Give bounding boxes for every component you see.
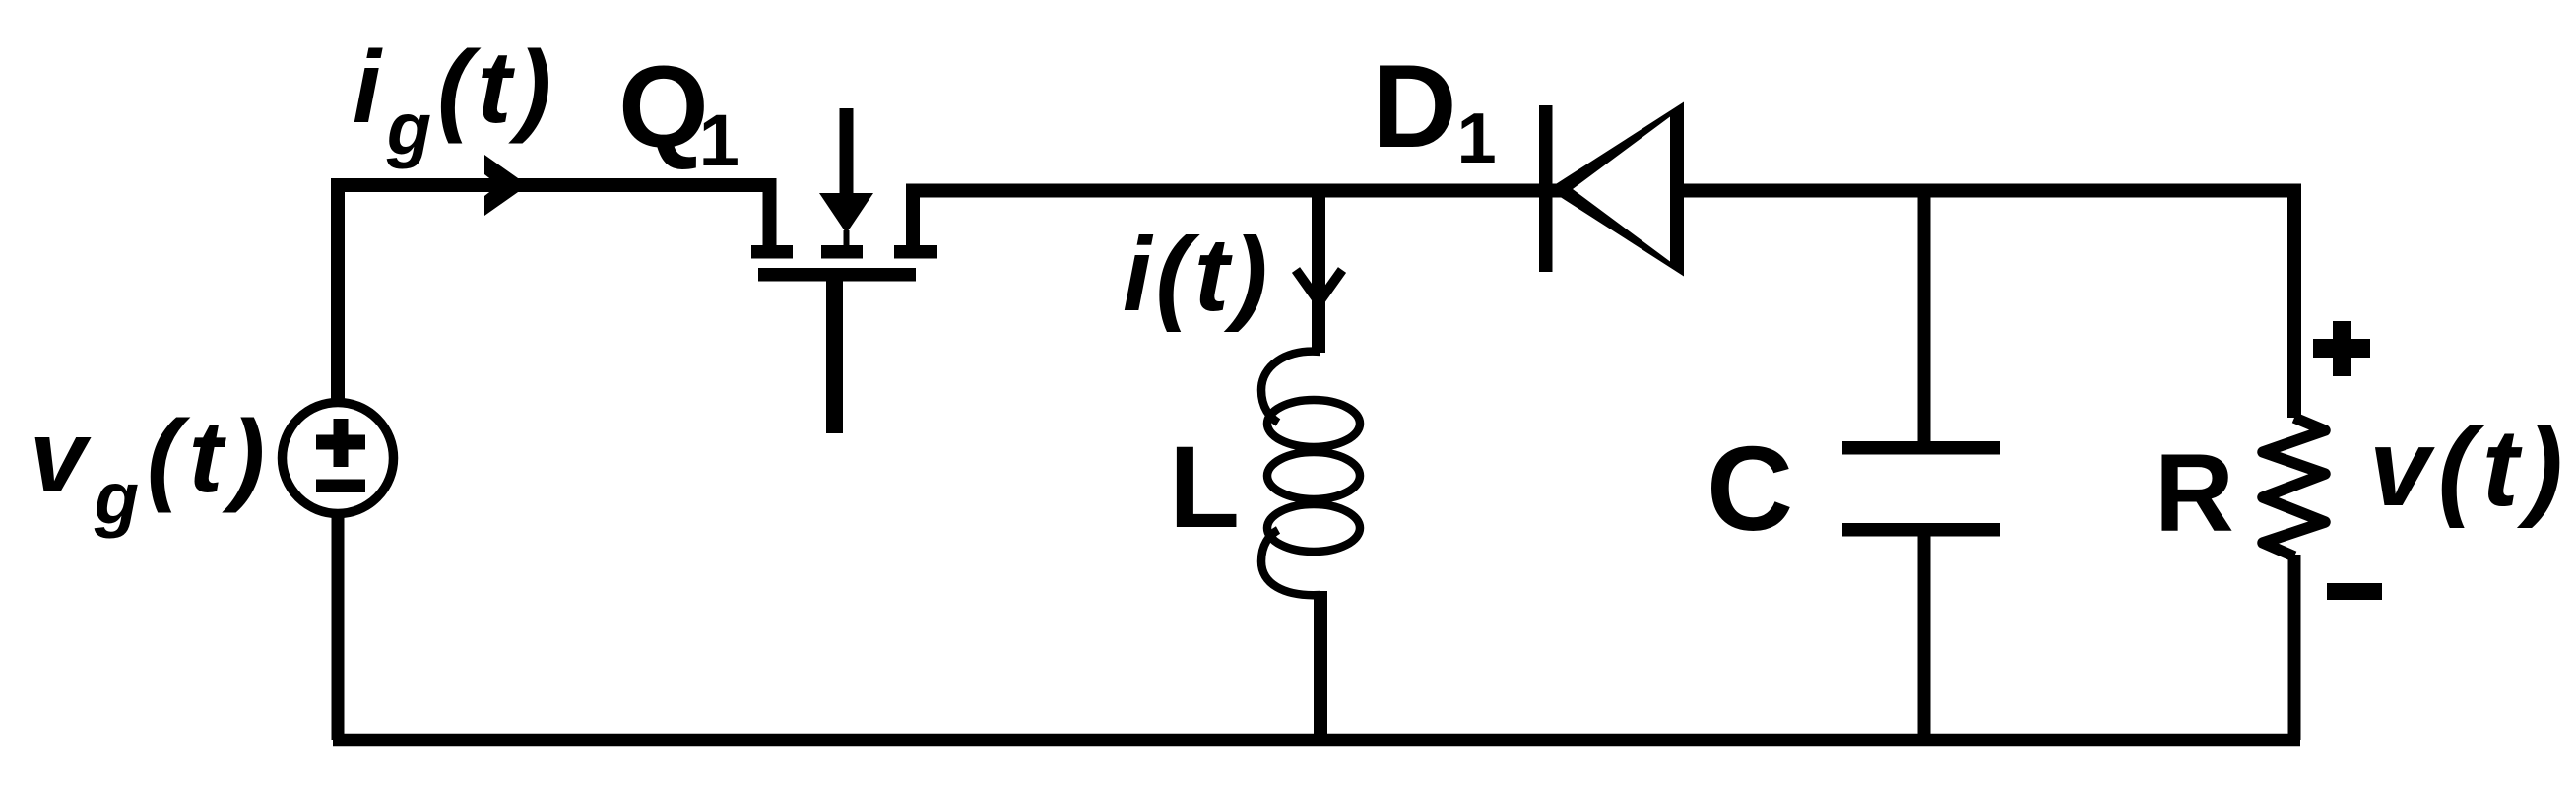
diode D1 xyxy=(1539,102,1684,277)
transistor Q1 xyxy=(751,108,937,433)
plus sign xyxy=(2313,321,2370,376)
wire: inductor top lead from junction xyxy=(1312,191,1325,354)
svg-text:i(t): i(t) xyxy=(1123,217,1271,333)
wire: capacitor bottom lead xyxy=(1918,530,1931,740)
voltage source Vg xyxy=(283,403,394,514)
wire: inductor bottom lead xyxy=(1314,591,1327,740)
inductor L xyxy=(1261,352,1360,596)
svg-text:R: R xyxy=(2155,431,2234,555)
wire: left vertical + top-left horizontal to Q1 drain xyxy=(338,185,770,403)
current arrow i(t) xyxy=(1296,270,1342,302)
resistor R xyxy=(2263,418,2325,556)
capacitor C xyxy=(1842,441,2000,537)
current arrow ig xyxy=(484,155,528,216)
wire: bottom horizontal rail xyxy=(333,734,2300,747)
wire: Q1 source corner + top-right horizontal + right vertical to resistor xyxy=(913,191,2294,419)
svg-text:C: C xyxy=(1707,422,1793,556)
wire: right vertical below resistor xyxy=(2288,555,2301,740)
svg-text:L: L xyxy=(1169,423,1240,553)
wire: capacitor top lead from junction xyxy=(1918,191,1931,449)
minus sign xyxy=(2327,583,2382,600)
svg-text:v(t): v(t) xyxy=(2369,407,2571,529)
wire: left vertical below source xyxy=(332,513,345,740)
